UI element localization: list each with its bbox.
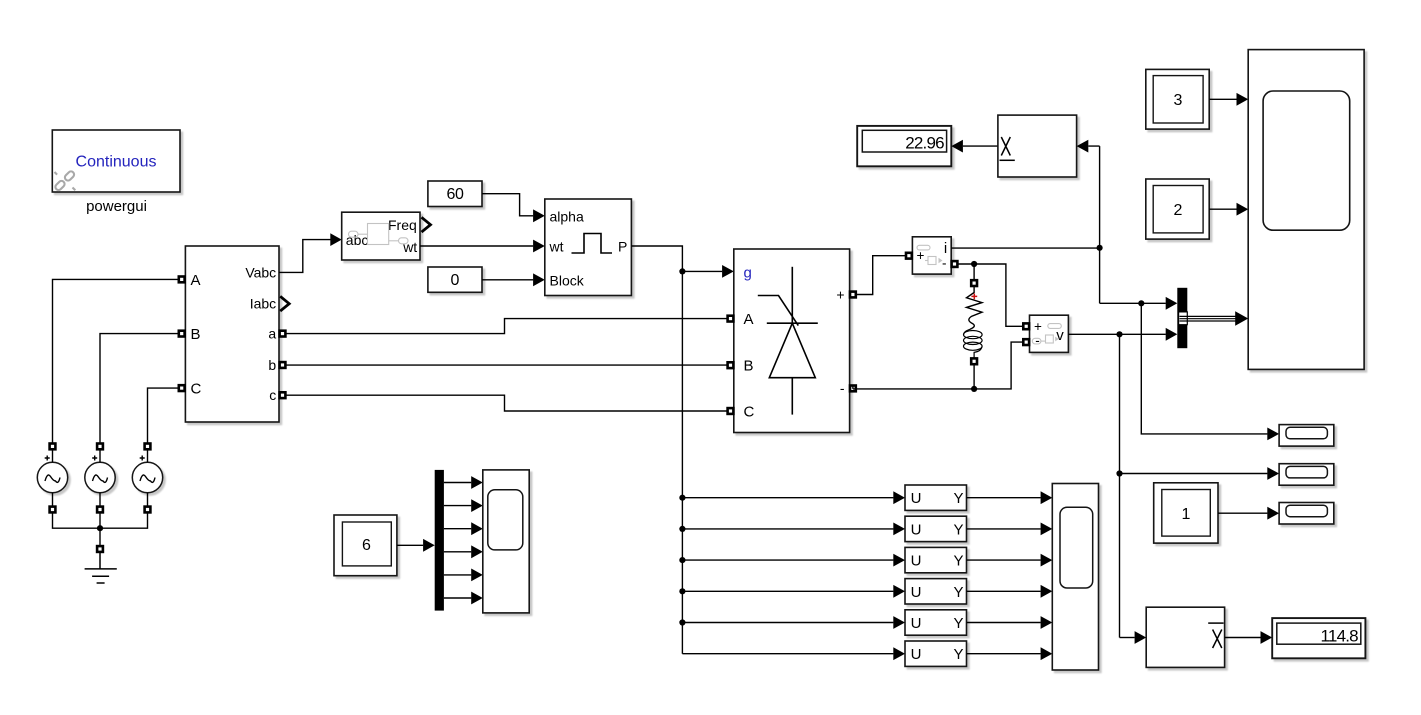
constant 6 <box>334 515 397 576</box>
svg-text:Y: Y <box>953 490 963 507</box>
wire trunk to selector 5 <box>682 622 893 624</box>
node to miniscope2 branch <box>1116 331 1122 337</box>
wire Vabc to PLL abc <box>279 240 331 273</box>
port c of B1 <box>280 392 286 398</box>
selector U-Y 3 <box>905 547 967 572</box>
constant 60 <box>428 181 482 207</box>
voltage measurement block Vab <box>1030 315 1069 352</box>
arrow into Block <box>533 273 545 286</box>
port bottom V3 <box>145 507 151 513</box>
constant 0 <box>428 267 482 292</box>
mean block 2 <box>1146 607 1224 667</box>
ground port <box>97 546 103 552</box>
node neutral <box>97 525 103 531</box>
display 22.96 <box>857 126 951 166</box>
svg-text:b: b <box>268 357 276 373</box>
port bottom V1 <box>50 507 56 513</box>
arrow into display 22.96 <box>951 140 963 153</box>
svg-text:a: a <box>268 326 276 342</box>
svg-text:i: i <box>944 240 947 257</box>
thyristor bridge block <box>734 249 850 433</box>
port C of bridge <box>728 408 734 414</box>
svg-text:v: v <box>1056 327 1064 344</box>
wire selector 1 to scope2 <box>967 497 1041 499</box>
svg-text:2: 2 <box>1174 202 1183 219</box>
wire selector 6 to scope2 <box>967 653 1041 655</box>
node i branch <box>1097 245 1103 251</box>
svg-text:+: + <box>836 287 844 303</box>
scope1 (main scope) <box>1248 50 1364 370</box>
port A of bridge <box>728 316 734 322</box>
demux out wire 5 <box>444 574 471 576</box>
wire trunk to selector 6 <box>682 653 893 655</box>
wire trunk to selector 3 <box>682 559 893 561</box>
svg-text:-: - <box>840 380 845 396</box>
AC voltage source V2 <box>85 462 115 492</box>
AC voltage source V1 <box>37 462 67 492</box>
wire i to mean 1 <box>1088 146 1099 303</box>
mux bar <box>1177 288 1187 348</box>
svg-text:-: - <box>942 256 947 271</box>
demux out wire 1 <box>444 482 471 484</box>
svg-text:60: 60 <box>447 186 464 203</box>
wire mean2 to display <box>1225 637 1261 639</box>
svg-text:B: B <box>191 326 201 343</box>
svg-text:-: - <box>1035 333 1040 348</box>
wire wt to pulse generator <box>420 245 533 247</box>
port A of B1 <box>179 277 185 283</box>
resistor of RLC <box>967 286 983 329</box>
svg-text:22.96: 22.96 <box>905 134 944 153</box>
svg-text:Vabc: Vabc <box>245 265 276 281</box>
powergui block U_powergui <box>52 130 180 192</box>
wire bridge plus to current measurement <box>856 256 905 295</box>
thyristor symbol <box>758 267 818 415</box>
port top V3 <box>145 444 151 450</box>
wire C to V3 <box>148 388 179 443</box>
current measurement interior grey icon <box>917 245 943 264</box>
svg-text:6: 6 <box>362 537 371 554</box>
wire selector 4 to scope2 <box>967 590 1041 592</box>
node at RLC top <box>971 261 977 267</box>
red plus of RLC <box>971 294 977 300</box>
wire RLC bottom to rail <box>973 365 975 389</box>
svg-text:Freq: Freq <box>388 217 417 233</box>
wire branch to miniscope1 <box>1141 303 1267 434</box>
svg-text:Y: Y <box>953 584 963 601</box>
arrow into mean 1 <box>1077 140 1089 153</box>
PLL block abc-Freq-wt <box>342 212 420 260</box>
svg-text:Y: Y <box>953 553 963 570</box>
port a of B1 <box>280 331 286 337</box>
port B of bridge <box>728 362 734 368</box>
wire i branch to mux input 1 <box>1100 302 1166 304</box>
bus wire mux to scope <box>1180 316 1237 321</box>
wire selector 5 to scope2 <box>967 622 1041 624</box>
svg-text:wt: wt <box>402 239 417 255</box>
port b of B1 <box>280 362 286 368</box>
node P-g <box>679 268 685 274</box>
wire neutral rail <box>53 513 148 546</box>
svg-text:B: B <box>744 358 754 375</box>
svg-text:alpha: alpha <box>550 208 584 224</box>
bus arrow into scope1 <box>1235 311 1248 326</box>
svg-text:3: 3 <box>1174 92 1183 109</box>
wire i output to mean trunk <box>951 247 1099 249</box>
wire minus port to RLC and v-plus <box>958 264 1023 326</box>
wire A to V1 <box>53 279 179 443</box>
wire a to bridge A <box>286 319 727 334</box>
svg-text:C: C <box>744 404 755 421</box>
unconnected output chevron Iabc <box>280 296 289 311</box>
pulse icon <box>572 234 613 254</box>
display 114.8 <box>1272 618 1365 658</box>
arrow into mux 1 <box>1166 297 1178 310</box>
powergui broken-link icon <box>54 170 75 191</box>
port bottom V2 <box>97 507 103 513</box>
svg-text:P: P <box>618 238 627 254</box>
svg-text:C: C <box>191 381 202 398</box>
unconnected output chevron Freq <box>422 217 431 232</box>
wire 0 to Block <box>482 279 533 281</box>
constant 1 <box>1154 483 1218 543</box>
demux out wire 4 <box>444 551 471 553</box>
port minus of current measurement <box>952 261 958 267</box>
svg-text:A: A <box>744 311 754 328</box>
svg-text:c: c <box>269 387 276 403</box>
arrow into g <box>722 265 734 278</box>
voltage measurement interior grey icon <box>1032 324 1061 344</box>
miniscope 1 <box>1279 425 1334 447</box>
svg-text:Block: Block <box>550 272 585 288</box>
wire 1 to miniscope3 <box>1218 512 1267 514</box>
port top V2 <box>97 444 103 450</box>
miniscope 2 <box>1279 464 1334 486</box>
wire 6 to demux <box>397 544 423 546</box>
node miniscope2 branch <box>1116 470 1122 476</box>
synchronized 6-pulse generator block <box>545 199 632 296</box>
constant 3 <box>1146 69 1209 129</box>
svg-text:g: g <box>744 264 752 281</box>
wire v branch to mean 2 <box>1120 637 1135 639</box>
svg-text:U: U <box>911 615 922 632</box>
svg-text:Y: Y <box>953 521 963 538</box>
wire branch v down <box>1120 334 1268 637</box>
selector U-Y 1 <box>905 485 967 510</box>
wire selector 2 to scope2 <box>967 528 1041 530</box>
mean icon xbar flipped <box>1000 137 1015 160</box>
plus mark V3 <box>140 456 145 461</box>
svg-text:114.8: 114.8 <box>1321 627 1359 646</box>
svg-text:1: 1 <box>1182 506 1191 523</box>
svg-text:+: + <box>1034 319 1042 334</box>
wire V1 stubs <box>52 450 54 507</box>
node to miniscope1 branch <box>1138 300 1144 306</box>
wire P to g and selectors (vertical trunk) <box>631 246 682 654</box>
plus mark V2 <box>92 456 97 461</box>
svg-text:Y: Y <box>953 615 963 632</box>
wire trunk to selector 1 <box>682 497 893 499</box>
powergui label <box>86 198 147 215</box>
port bottom of RLC <box>971 358 977 364</box>
svg-text:U: U <box>911 584 922 601</box>
port B of B1 <box>179 331 185 337</box>
wire V2 stubs <box>99 450 101 507</box>
inductor of RLC <box>964 329 983 358</box>
demux out wire 2 <box>444 505 471 507</box>
wire bridge minus rail to v-minus <box>853 342 1023 389</box>
port plus of voltage measurement <box>1023 323 1029 329</box>
arrow into mux 2 <box>1166 328 1178 341</box>
scope3 (gate pulses) <box>483 470 529 613</box>
wire mean to display <box>963 145 998 147</box>
selector U-Y 4 <box>905 579 967 604</box>
svg-text:powergui: powergui <box>86 198 147 215</box>
node rail RLC <box>971 386 977 392</box>
arrow into abc <box>330 233 341 246</box>
arrow into wt <box>533 240 545 253</box>
wire c to bridge C <box>286 395 727 411</box>
wire trunk to selector 4 <box>682 590 893 592</box>
port plus of bridge <box>850 292 856 298</box>
port minus of bridge <box>850 386 856 392</box>
series RLC branch <box>971 280 977 286</box>
miniscope 3 <box>1279 503 1334 525</box>
svg-text:+: + <box>917 248 925 263</box>
current measurement block Iab <box>912 237 951 274</box>
wire selector 3 to scope2 <box>967 559 1041 561</box>
svg-text:A: A <box>191 272 201 289</box>
wire 2 to scope1 <box>1209 208 1236 210</box>
wire 60 to alpha <box>482 194 533 216</box>
selector U-Y 5 <box>905 610 967 635</box>
constant 2 <box>1146 179 1209 239</box>
arrow into demux <box>423 539 435 552</box>
scope2 (thyristor signals) <box>1052 484 1098 671</box>
port top V1 <box>50 444 56 450</box>
svg-text:U: U <box>911 490 922 507</box>
wire into g <box>682 270 722 272</box>
port C of B1 <box>179 385 185 391</box>
port minus of voltage measurement <box>1023 339 1029 345</box>
selector U-Y 2 <box>905 516 967 541</box>
svg-text:Y: Y <box>953 646 963 663</box>
wire trunk to selector 2 <box>682 528 893 530</box>
arrow into alpha <box>533 209 545 222</box>
svg-text:wt: wt <box>549 238 564 254</box>
svg-text:Iabc: Iabc <box>250 296 276 312</box>
wire b to bridge B <box>286 364 727 366</box>
demux bar <box>435 470 444 611</box>
mux output port notch <box>1179 312 1188 325</box>
ground <box>85 552 117 583</box>
AC voltage source V3 <box>132 462 162 492</box>
wire v to mux input 2 <box>1068 333 1165 335</box>
mean block 1 (flipped) <box>998 115 1077 177</box>
three-phase V-I measurement block B1 <box>185 246 279 422</box>
demux out wire 3 <box>444 528 471 530</box>
wire 3 to scope1 <box>1209 98 1236 100</box>
plus mark V1 <box>45 456 50 461</box>
wire V3 stubs <box>147 450 149 507</box>
port plus of current measurement <box>906 253 912 259</box>
PLL interior grey icon <box>349 224 409 245</box>
svg-text:U: U <box>911 553 922 570</box>
svg-text:Continuous: Continuous <box>76 154 157 171</box>
wire B to V2 <box>100 334 178 444</box>
svg-text:U: U <box>911 521 922 538</box>
demux out wire 6 <box>444 597 471 599</box>
svg-text:0: 0 <box>451 272 460 289</box>
svg-text:U: U <box>911 646 922 663</box>
arrow into mean 2 <box>1135 631 1147 644</box>
mean icon xbar <box>1208 623 1223 648</box>
selector U-Y 6 <box>905 641 967 666</box>
